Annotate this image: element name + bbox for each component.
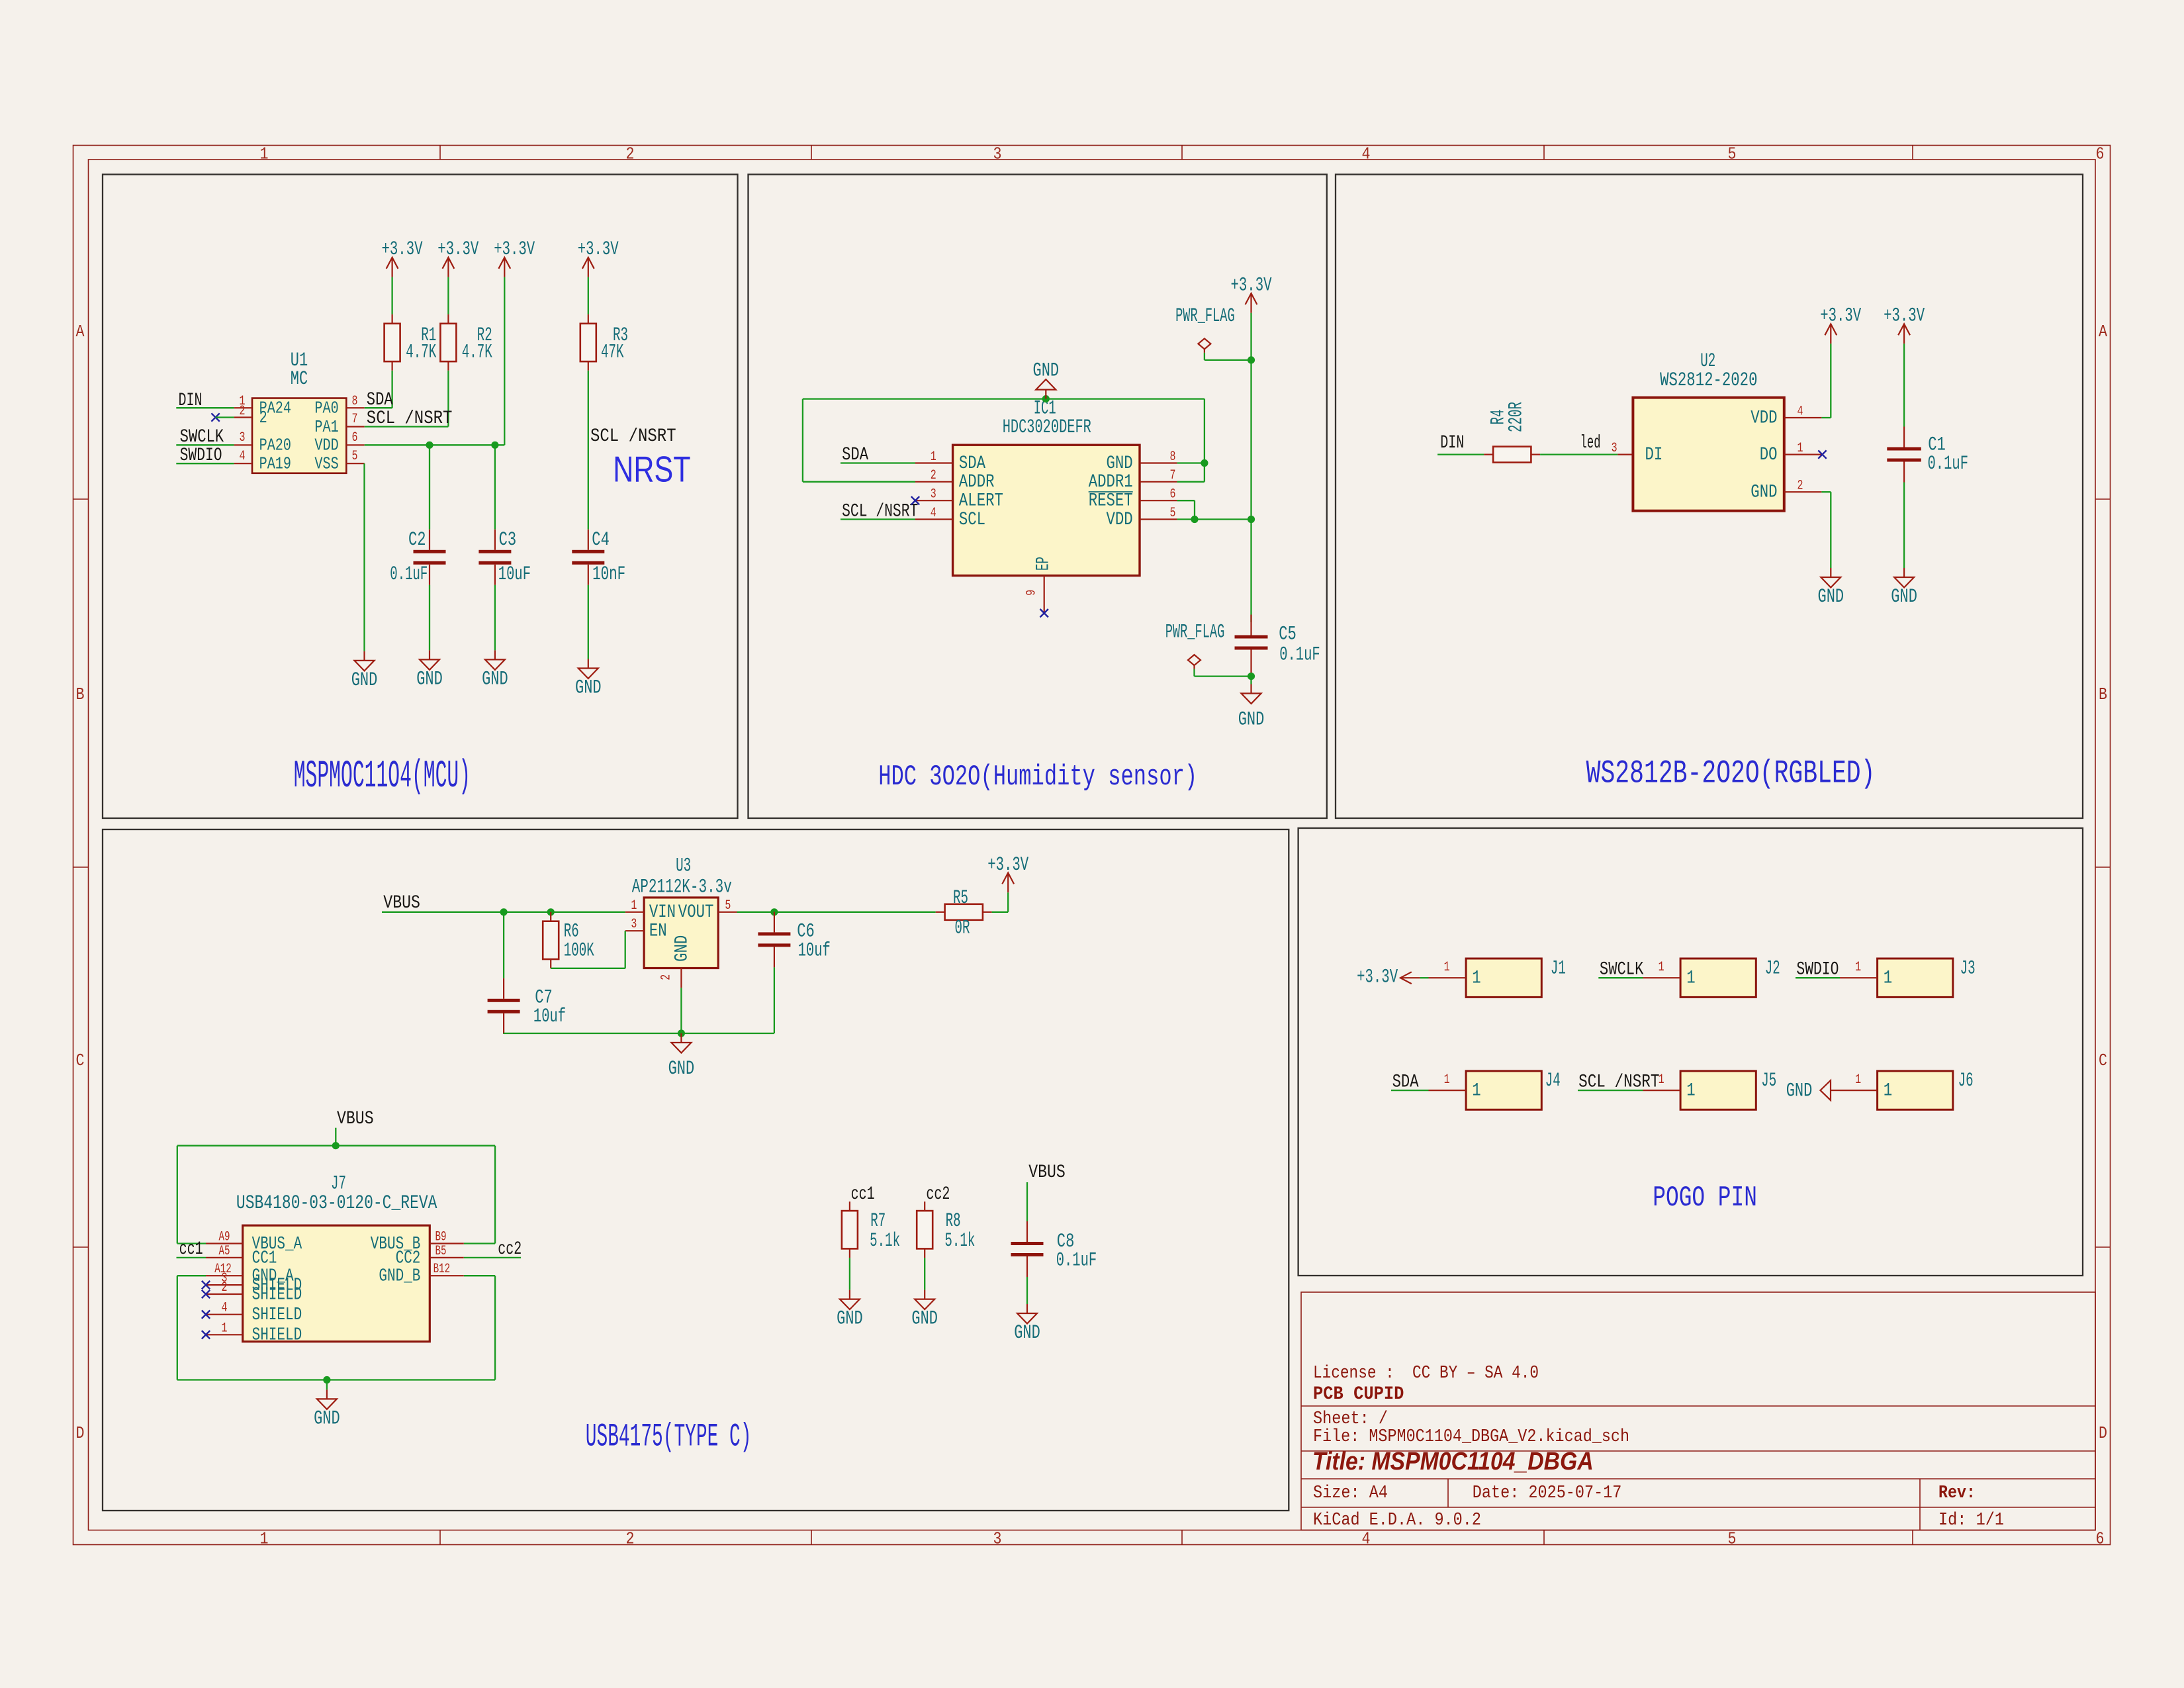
pogo connector J6 body: [1878, 1071, 1953, 1109]
svg-text:2: 2: [659, 974, 674, 980]
svg-text:EN: EN: [649, 921, 667, 942]
R8 reference: [946, 1210, 961, 1233]
svg-text:2: 2: [222, 1280, 228, 1295]
wire VOUT right: [737, 912, 936, 913]
U3 value AP2112K-3.3v: [632, 876, 732, 898]
svg-text:VBUS: VBUS: [337, 1109, 374, 1129]
svg-text:2: 2: [931, 468, 936, 483]
ground GND below C2: [416, 650, 443, 690]
svg-text:WS2812-2020: WS2812-2020: [1660, 369, 1757, 392]
wire SWCLK to U1 pin3: [176, 444, 234, 445]
capacitor C2: [414, 530, 446, 585]
power +3.3V above R2: [437, 238, 478, 277]
svg-text:+3.3V: +3.3V: [578, 238, 619, 261]
svg-text:5: 5: [1728, 1529, 1737, 1549]
svg-text:led: led: [1580, 433, 1601, 453]
svg-text:9: 9: [1024, 590, 1039, 596]
wire DIN to U1 pin1: [176, 407, 234, 408]
frame column numbers bottom: [260, 1529, 2105, 1549]
svg-text:GND: GND: [1786, 1080, 1813, 1103]
C4 value 10nF: [592, 563, 625, 586]
svg-text:100K: 100K: [564, 940, 594, 962]
svg-text:cc2: cc2: [926, 1184, 950, 1205]
J7 reference: [331, 1173, 346, 1196]
svg-text:C: C: [2099, 1051, 2107, 1070]
U1 right pins: [346, 408, 364, 463]
svg-text:3: 3: [931, 487, 936, 502]
pogo connector J5 body: [1680, 1071, 1756, 1109]
svg-text:U3: U3: [676, 855, 691, 877]
wire C4 bottom: [588, 585, 589, 659]
R4 reference rotated: [1488, 410, 1510, 425]
svg-text:2: 2: [1797, 479, 1803, 494]
frame column ticks bottom: [440, 1530, 1913, 1545]
svg-text:GND: GND: [1238, 709, 1265, 731]
svg-text:GND: GND: [1033, 360, 1060, 383]
capacitor C8: [1011, 1221, 1044, 1277]
U3 reference: [676, 855, 691, 877]
svg-text:R8: R8: [946, 1210, 961, 1233]
resistor R6: [543, 912, 559, 968]
svg-text:GND: GND: [672, 935, 692, 962]
svg-text:2: 2: [259, 408, 267, 428]
C2 value 0.1uF: [390, 563, 428, 586]
ground GND flipped above ADDR loop: [1033, 360, 1060, 399]
section box USB TYPE C: [103, 829, 1289, 1511]
svg-text:MC: MC: [291, 368, 308, 391]
svg-text:GND: GND: [482, 668, 508, 690]
pogo connector J3 body: [1878, 959, 1953, 997]
J5 reference: [1761, 1070, 1776, 1092]
U1 pin names right PA0 PA1 VDD VSS: [314, 399, 338, 474]
J3 pin number 1: [1855, 960, 1861, 975]
capacitor C5: [1235, 615, 1268, 677]
resistor R4 horizontal: [1484, 447, 1540, 463]
section box POGO PIN: [1298, 828, 2083, 1276]
svg-text:B: B: [2099, 684, 2107, 704]
wire PWR_FLAG to rail: [1205, 353, 1251, 360]
wire RESET pin6 to VDD net: [1177, 500, 1195, 519]
svg-text:3: 3: [1612, 441, 1617, 456]
svg-text:6: 6: [2096, 1529, 2105, 1549]
wire R1 to SDA: [365, 371, 392, 408]
IC1 pin number 9 rotated: [1024, 590, 1039, 596]
junction VBUS-C7: [500, 908, 508, 915]
label led on wire: [1580, 433, 1601, 453]
IC1 left pins: [915, 463, 953, 520]
section title MSPM0C1104(MCU): [294, 755, 471, 798]
wire U2 GND down: [1821, 492, 1831, 568]
junction GND rail U3: [678, 1029, 685, 1037]
wire lower PWR_FLAG to rail: [1195, 669, 1251, 677]
resistor R1: [385, 314, 400, 371]
wire cc2 from J7: [464, 1257, 521, 1258]
wire U3 GND pin down: [680, 988, 682, 1033]
svg-text:1: 1: [1686, 1081, 1695, 1102]
svg-text:+3.3V: +3.3V: [1357, 966, 1398, 988]
wire C3 top: [494, 445, 496, 530]
svg-text:License : CC BY – SA 4.0: License : CC BY – SA 4.0: [1313, 1364, 1539, 1383]
wire R2 to SCL/NSRT: [365, 371, 449, 427]
U2 pin numbers right 4 1 2: [1797, 404, 1803, 493]
svg-text:Rev:: Rev:: [1938, 1483, 1976, 1503]
svg-text:GND: GND: [837, 1308, 863, 1331]
svg-text:10uF: 10uF: [498, 563, 531, 586]
frame row letters left: [76, 322, 85, 1443]
mcu U1 body: [252, 399, 346, 473]
label DIN (R4 net): [1440, 433, 1464, 453]
svg-text:VSS: VSS: [314, 454, 338, 474]
IC1 right pins: [1140, 463, 1177, 520]
svg-text:PWR_FLAG: PWR_FLAG: [1175, 305, 1235, 328]
U2 pin name DI: [1645, 445, 1663, 465]
label VBUS (U3 input): [383, 893, 420, 914]
wire SWDIO to J3: [1796, 977, 1840, 978]
junction pin8 with ADDR loop: [1201, 459, 1208, 467]
frame column numbers top: [260, 144, 2105, 164]
svg-text:MSPMOC11O4(MCU): MSPMOC11O4(MCU): [294, 755, 471, 798]
svg-text:2: 2: [626, 1529, 635, 1549]
R7 reference: [870, 1210, 886, 1233]
svg-text:4.7K: 4.7K: [462, 341, 492, 363]
svg-text:J6: J6: [1958, 1070, 1974, 1092]
J2 pin stub: [1643, 977, 1681, 978]
J2 pin name 1: [1686, 968, 1695, 989]
svg-text:POGO PIN: POGO PIN: [1653, 1182, 1757, 1215]
svg-text:PA20: PA20: [259, 436, 291, 455]
svg-text:PA0: PA0: [314, 399, 338, 418]
svg-text:10uf: 10uf: [798, 940, 831, 962]
wire GND stub below junction: [326, 1380, 328, 1390]
label cc1 above R7: [851, 1184, 875, 1205]
svg-text:7: 7: [1170, 468, 1176, 483]
wire VDD pin5 to +3.3V rail: [1177, 518, 1251, 520]
svg-text:4: 4: [222, 1301, 228, 1316]
resistor R5 horizontal: [936, 904, 992, 920]
svg-text:4: 4: [1362, 144, 1371, 164]
svg-text:4: 4: [931, 506, 936, 521]
svg-text:GND: GND: [314, 1407, 340, 1430]
U2 reference: [1700, 350, 1715, 373]
svg-text:5: 5: [1170, 506, 1176, 521]
J4 reference: [1545, 1070, 1561, 1092]
wire C3 bottom: [494, 585, 496, 651]
label VBUS above C8: [1028, 1162, 1066, 1183]
label cc1 (J7 CC1 net): [179, 1239, 203, 1260]
svg-text:+3.3V: +3.3V: [987, 854, 1028, 876]
svg-text:5: 5: [725, 898, 731, 914]
wire C6 bottom: [774, 967, 775, 1033]
frame row ticks left: [73, 499, 89, 1247]
resistor R2: [440, 314, 456, 371]
U3 pin numbers 1 3 5 2: [631, 898, 731, 980]
section title HDC 3020(Humidity sensor): [878, 761, 1197, 794]
svg-text:A: A: [2099, 322, 2107, 342]
wire +3.3V to J1: [1420, 977, 1429, 978]
wire cc1 to J7: [177, 1257, 206, 1258]
ground GND below U3: [668, 1033, 695, 1080]
J6 pin name 1: [1884, 1081, 1892, 1102]
ground GND below C4: [575, 659, 602, 700]
svg-text:PA19: PA19: [259, 454, 291, 474]
wire C5 bottom to junction: [1250, 677, 1251, 684]
title block size: [1313, 1483, 1388, 1503]
wire R3 to C4: [588, 371, 589, 530]
wire +3.3V to R3: [588, 277, 589, 314]
svg-text:VOUT: VOUT: [678, 902, 714, 923]
svg-text:GND: GND: [351, 669, 378, 692]
mcu U1 reference: [291, 350, 308, 372]
wire SDA to J4: [1391, 1090, 1429, 1091]
capacitor C4: [572, 530, 604, 585]
J1 pin name 1: [1472, 968, 1480, 989]
svg-text:+3.3V: +3.3V: [1231, 274, 1272, 297]
U1 pin numbers right 8 7 6 5: [352, 394, 358, 464]
svg-text:220R: 220R: [1505, 402, 1527, 432]
frame row ticks right: [2095, 499, 2111, 1247]
wire VBUS to U3 VIN: [382, 912, 625, 913]
svg-text:1: 1: [222, 1321, 228, 1336]
svg-text:B: B: [76, 684, 85, 704]
power +3.3V top of rail: [1231, 274, 1272, 312]
wire VSS down: [363, 463, 365, 651]
svg-text:0.1uF: 0.1uF: [390, 563, 428, 586]
svg-text:cc2: cc2: [498, 1239, 522, 1260]
svg-text:GND: GND: [668, 1058, 695, 1080]
wire VBUS stub into top wire: [335, 1128, 336, 1146]
label SDA at J4: [1392, 1072, 1419, 1092]
C2 reference: [408, 529, 426, 551]
svg-text:USB4180-03-0120-C_REVA: USB4180-03-0120-C_REVA: [236, 1192, 437, 1215]
wire VBUS to C8: [1026, 1182, 1028, 1221]
sheet outer border frame: [73, 146, 2111, 1545]
wire U1 pin2 stub: [216, 416, 234, 418]
R1 value 4.7K: [406, 341, 436, 363]
wire C2 bottom: [429, 585, 430, 651]
J4 pin name 1: [1472, 1081, 1480, 1102]
J3 pin stub: [1840, 977, 1878, 978]
R5 value 0R: [955, 917, 970, 940]
junction VDD-C3: [491, 442, 498, 449]
svg-text:NRST: NRST: [613, 449, 690, 490]
svg-text:6: 6: [1170, 487, 1176, 502]
J3 pin name 1: [1884, 968, 1892, 989]
R1 reference: [421, 324, 436, 347]
wire DIN to R4: [1437, 453, 1484, 455]
svg-text:47K: 47K: [601, 341, 624, 363]
user text NRST: [613, 449, 690, 490]
svg-text:1: 1: [631, 898, 637, 914]
svg-text:B5: B5: [435, 1244, 447, 1259]
svg-text:GND: GND: [911, 1308, 938, 1331]
section box HDC3020: [749, 175, 1327, 819]
J4 pin number 1: [1444, 1072, 1450, 1088]
title block outline: [1301, 1292, 2095, 1530]
svg-text:1: 1: [260, 1529, 269, 1549]
U1 left pins: [234, 408, 252, 463]
svg-text:cc1: cc1: [179, 1239, 203, 1260]
R7 value 5.1k: [870, 1230, 900, 1252]
mcu U1 value MC: [291, 368, 308, 391]
label SDA (IC1 pin1 net): [842, 445, 868, 465]
svg-text:SHIELD: SHIELD: [252, 1285, 302, 1305]
svg-text:6: 6: [352, 430, 358, 445]
svg-text:1: 1: [931, 449, 936, 465]
svg-text:8: 8: [352, 394, 358, 409]
svg-text:J1: J1: [1551, 957, 1566, 980]
label SWCLK (U1 pin3 net): [180, 427, 224, 447]
junction VOUT-C6: [770, 908, 778, 915]
svg-text:5.1k: 5.1k: [944, 1230, 975, 1252]
svg-text:USB4175(TYPE C): USB4175(TYPE C): [586, 1419, 752, 1456]
wire C7 top: [503, 912, 504, 978]
svg-text:2: 2: [626, 144, 635, 164]
title block date: [1473, 1483, 1622, 1503]
ground GND below R7: [837, 1290, 863, 1331]
usb J7 body: [243, 1225, 430, 1342]
svg-text:J5: J5: [1761, 1070, 1776, 1092]
svg-text:Date: 2025-07-17: Date: 2025-07-17: [1473, 1483, 1622, 1503]
svg-text:SWCLK: SWCLK: [1600, 959, 1644, 980]
svg-text:A5: A5: [219, 1244, 230, 1259]
svg-text:1: 1: [260, 144, 269, 164]
svg-text:0.1uF: 0.1uF: [1928, 453, 1969, 475]
svg-text:0.1uF: 0.1uF: [1279, 644, 1320, 667]
J6 reference: [1958, 1070, 1974, 1092]
power flag PWR_FLAG upper: [1175, 305, 1235, 353]
svg-text:J3: J3: [1960, 957, 1976, 980]
J1 reference: [1551, 957, 1566, 980]
wire C2 top: [429, 445, 430, 530]
svg-text:SHIELD: SHIELD: [252, 1326, 302, 1346]
J7 pin numbers left: [214, 1230, 232, 1336]
R4 value 220R rotated: [1505, 402, 1527, 432]
U2 DI pin stub: [1617, 453, 1633, 455]
C6 reference: [797, 921, 815, 943]
title block kicad version: [1313, 1511, 1481, 1530]
ground GND below U1 VSS: [351, 651, 378, 692]
J5 pin name 1: [1686, 1081, 1695, 1102]
J5 pin stub: [1643, 1090, 1681, 1091]
svg-text:HDC 3O2O(Humidity sensor): HDC 3O2O(Humidity sensor): [878, 761, 1197, 794]
svg-text:1: 1: [1884, 1081, 1892, 1102]
title block id: [1938, 1511, 2004, 1530]
power +3.3V output: [987, 854, 1028, 892]
svg-text:3: 3: [993, 144, 1002, 164]
junction lower PWR_FLAG: [1248, 673, 1255, 680]
junction GND tap on ADDR loop: [1042, 395, 1050, 402]
IC1 pin names left SDA ADDR ALERT SCL: [959, 453, 1003, 530]
title block row lines: [1301, 1406, 2095, 1530]
svg-text:+3.3V: +3.3V: [437, 238, 478, 261]
junction PWR_FLAG-rail: [1248, 356, 1255, 363]
U2 value WS2812-2020: [1660, 369, 1757, 392]
svg-text:4: 4: [240, 449, 246, 464]
svg-text:SDA: SDA: [959, 453, 985, 474]
wire +3.3V to R2: [447, 277, 449, 314]
power +3.3V above U2 VDD: [1820, 305, 1861, 344]
no-connect X on U1 pin2: [211, 413, 219, 421]
svg-text:5.1k: 5.1k: [870, 1230, 900, 1252]
R2 reference: [477, 324, 492, 347]
J1 pin stub: [1429, 977, 1467, 978]
U1 pin names left PA24 2 PA20 PA19: [259, 399, 291, 474]
title block license text: [1313, 1364, 1539, 1383]
svg-text:RESET: RESET: [1089, 491, 1133, 512]
svg-text:7: 7: [352, 412, 358, 427]
J7 value USB4180-03-0120-C_REVA: [236, 1192, 437, 1215]
hdc IC1 reference: [1034, 398, 1056, 420]
svg-text:B9: B9: [435, 1230, 447, 1245]
svg-text:VBUS: VBUS: [1028, 1162, 1066, 1183]
R8 value 5.1k: [944, 1230, 975, 1252]
wire SCL to IC1 pin4: [841, 518, 915, 520]
svg-text:Size: A4: Size: A4: [1313, 1483, 1388, 1503]
wire J7 top loop: [177, 1146, 495, 1244]
C8 reference: [1057, 1231, 1075, 1253]
svg-text:ADDR: ADDR: [959, 472, 995, 492]
label cc2 above R8: [926, 1184, 950, 1205]
C4 reference: [592, 529, 610, 551]
svg-text:C4: C4: [592, 529, 610, 551]
J3 reference: [1960, 957, 1976, 980]
svg-text:ADDR1: ADDR1: [1089, 472, 1133, 492]
J7 pin names right: [371, 1235, 421, 1287]
wire C7 bottom to GND rail: [504, 1033, 774, 1035]
capacitor C7: [488, 978, 520, 1034]
pogo connector J4 body: [1466, 1071, 1541, 1109]
wire GND_A loop down: [177, 1276, 495, 1380]
svg-text:GND: GND: [1014, 1322, 1040, 1344]
wire R8 to GND: [924, 1258, 925, 1290]
title block rev: [1938, 1483, 1976, 1503]
C6 value 10uf: [798, 940, 831, 962]
svg-text:4: 4: [1362, 1529, 1371, 1549]
svg-text:1: 1: [1444, 960, 1450, 975]
R6 value 100K: [564, 940, 594, 962]
wire C8 bottom: [1026, 1277, 1028, 1304]
svg-text:DI: DI: [1645, 445, 1663, 465]
section box WS2812B: [1336, 175, 2083, 819]
title block company PCB CUPID: [1313, 1384, 1404, 1405]
C7 value 10uf: [533, 1006, 566, 1028]
J2 pin number 1: [1659, 960, 1664, 975]
svg-text:5: 5: [352, 449, 358, 464]
svg-text:Title: MSPM0C1104_DBGA: Title: MSPM0C1104_DBGA: [1312, 1448, 1594, 1476]
svg-text:VDD: VDD: [314, 436, 338, 455]
J6 pin stub: [1840, 1090, 1878, 1091]
wire SDA to IC1 pin1: [841, 462, 915, 463]
svg-text:VDD: VDD: [1107, 510, 1133, 530]
J5 pin number 1: [1659, 1072, 1664, 1088]
wire C1 bottom: [1903, 483, 1905, 569]
power +3.3V above R1: [382, 238, 423, 277]
no-connect X on U2 DO: [1818, 450, 1826, 458]
svg-text:GND: GND: [1751, 483, 1777, 503]
svg-text:+3.3V: +3.3V: [1884, 305, 1925, 328]
svg-text:B12: B12: [433, 1262, 451, 1277]
svg-text:DIN: DIN: [1440, 433, 1464, 453]
svg-text:HDC3020DEFR: HDC3020DEFR: [1003, 416, 1091, 439]
IC1 pin numbers right 8 7 6 5: [1170, 449, 1176, 521]
svg-text:SDA: SDA: [367, 390, 393, 410]
svg-text:1: 1: [1444, 1072, 1450, 1088]
R6 reference: [564, 921, 579, 943]
wire IC1 pin8 GND to loop: [1177, 462, 1205, 463]
svg-text:+3.3V: +3.3V: [494, 238, 535, 261]
ground GND sideways at J6: [1821, 1080, 1841, 1100]
svg-text:SHIELD: SHIELD: [252, 1305, 302, 1325]
